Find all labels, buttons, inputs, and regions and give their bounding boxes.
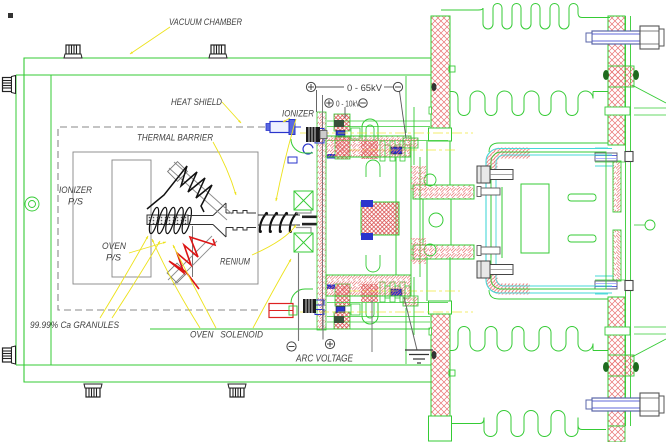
svg-text:VACUUM CHAMBER: VACUUM CHAMBER xyxy=(169,17,242,27)
10kV supply xyxy=(325,99,367,107)
cavity arch upper xyxy=(366,160,380,177)
upper support arm xyxy=(413,185,474,199)
bolt blue 5 xyxy=(327,154,335,159)
terminal comb xyxy=(380,141,410,161)
accelerator column lower half (mirrored) xyxy=(429,230,666,426)
hex bolt upper electrode xyxy=(477,166,513,183)
insulator column upper (sectioned support) xyxy=(429,16,456,141)
extraction electrode cup cyan outline xyxy=(486,149,612,294)
flange hatch lower xyxy=(411,238,426,264)
leader granules 2 xyxy=(112,241,160,318)
thermal barrier dashed box xyxy=(58,127,265,310)
exit line xyxy=(634,224,645,226)
bracket center boss xyxy=(361,202,399,235)
neck tube with baffles xyxy=(226,211,256,214)
small bolt mid-right upper xyxy=(595,152,633,162)
oven support rod xyxy=(168,236,217,285)
chamber inner wall bottom xyxy=(16,364,431,366)
svg-text:HEAT SHIELD: HEAT SHIELD xyxy=(171,97,222,107)
pipe elbow upper xyxy=(291,139,313,153)
cyan stubs lower xyxy=(595,276,613,294)
65kV supply xyxy=(306,82,406,138)
chamber bolt left-upper xyxy=(3,76,16,94)
lower strip foot patch xyxy=(608,426,625,442)
feedthrough centerline upper xyxy=(300,132,473,134)
source mounting plate xyxy=(317,112,326,330)
flange hole lower xyxy=(424,244,436,256)
feedthrough centerline lower xyxy=(300,311,473,313)
oven solenoid feedthrough (red box) xyxy=(269,304,297,318)
leader renium xyxy=(252,225,296,255)
leader oven solenoid left xyxy=(152,239,200,328)
65kV lead down xyxy=(316,90,318,112)
lower column foot xyxy=(429,416,452,441)
flange ring stack at right upper xyxy=(595,16,666,212)
blue stub xyxy=(288,157,297,163)
bolt blue 1 xyxy=(391,147,402,154)
solenoid frame lower xyxy=(296,228,311,246)
stem center box xyxy=(423,199,451,245)
electrode cup green wall xyxy=(491,152,606,289)
cyan stubs upper xyxy=(595,148,613,166)
electrode bracket top arm xyxy=(326,136,411,157)
electrode bracket right wall xyxy=(396,157,411,275)
cup shield line lower xyxy=(489,290,608,299)
solenoid frame upper xyxy=(296,196,311,213)
leader thermal barrier xyxy=(213,142,236,195)
hex bolt top-right upper xyxy=(586,26,664,49)
bolt blue 5 xyxy=(327,285,335,290)
pipe elbow lower xyxy=(291,289,313,303)
comb hatch xyxy=(361,284,378,302)
ionizer heater zigzag xyxy=(147,166,212,212)
accelerator column upper half xyxy=(429,4,666,213)
solenoid winding lower xyxy=(294,233,313,252)
ground symbol xyxy=(404,297,433,363)
svg-text:THERMAL BARRIER: THERMAL BARRIER xyxy=(137,133,213,143)
strip wall middle joints xyxy=(626,212,631,230)
small bolt mid-right lower xyxy=(595,281,633,291)
corrugated insulator profile lower outer xyxy=(452,411,606,437)
leader ionizer long xyxy=(276,119,296,201)
vacuum chamber outer shell xyxy=(24,58,431,382)
left end flange xyxy=(15,75,17,365)
left inner wall xyxy=(50,75,52,365)
plate centerline xyxy=(322,95,324,330)
corner mark xyxy=(8,13,13,18)
bolt blue 2 xyxy=(336,307,345,313)
knurled feedthrough lower xyxy=(303,299,316,313)
hex bolt lower electrode xyxy=(477,261,513,278)
svg-text:IONIZER: IONIZER xyxy=(282,109,314,119)
feedthrough flange hatch blocks lower xyxy=(334,312,350,329)
oven support strut xyxy=(192,226,194,277)
corrugated insulator profile upper outer xyxy=(441,4,610,30)
solenoid lead line xyxy=(371,300,373,352)
svg-text:IONIZER: IONIZER xyxy=(59,185,92,195)
chamber right partition lower xyxy=(405,308,407,364)
ionizer PS enclosure xyxy=(73,152,258,284)
chamber right partition upper xyxy=(405,76,407,133)
leader vacuum chamber xyxy=(130,27,170,54)
edge plate right upper xyxy=(632,85,666,103)
bolt blue 3 xyxy=(315,129,324,134)
insulator column lower (sectioned support) xyxy=(429,301,456,426)
oven barrel (Ca granules) xyxy=(147,215,188,225)
lower support arm xyxy=(413,245,474,259)
svg-text:OVEN: OVEN xyxy=(102,241,126,251)
arc voltage minus terminal xyxy=(287,253,299,351)
leader oven solenoid mid xyxy=(173,245,216,328)
viewport xyxy=(25,197,39,211)
leader granules 1 xyxy=(100,236,148,318)
flat screw upper xyxy=(477,187,500,197)
oven tube xyxy=(188,216,213,225)
cup shield line upper xyxy=(489,143,608,152)
svg-text:RENIUM: RENIUM xyxy=(220,257,250,267)
retaining ring xyxy=(303,144,313,154)
chamber bolt bottom-mid xyxy=(228,384,246,397)
leader oven ps xyxy=(129,242,166,253)
electrode cup inner cyan xyxy=(496,155,612,286)
bolt blue 3 xyxy=(315,310,324,315)
solenoid winding upper xyxy=(294,191,313,210)
comb hatch xyxy=(361,141,378,159)
flange hole upper xyxy=(424,174,436,186)
beam exit circle xyxy=(645,220,655,230)
svg-text:P/S: P/S xyxy=(106,253,121,263)
ionizer support rod xyxy=(169,162,232,220)
oven heater coil xyxy=(147,207,193,235)
feedthrough flange hatch blocks upper xyxy=(334,114,350,131)
chamber inner wall top xyxy=(16,74,431,76)
ionizer TC diamond xyxy=(168,162,188,182)
svg-text:0 - 65kV: 0 - 65kV xyxy=(347,83,383,94)
bolt blue 4 xyxy=(315,300,324,305)
oven PS enclosure xyxy=(112,160,151,277)
base plate line xyxy=(150,328,430,330)
terminal comb xyxy=(380,282,410,302)
washer stack xyxy=(327,321,430,323)
chamber bolt top-mid xyxy=(209,45,227,58)
svg-text:0 - 10kV: 0 - 10kV xyxy=(336,99,360,109)
svg-text:P/S: P/S xyxy=(68,197,83,207)
svg-text:ARC VOLTAGE: ARC VOLTAGE xyxy=(295,354,353,365)
leader ionizer short xyxy=(283,118,290,122)
insulator arch xyxy=(362,119,378,140)
oven heater zigzag (red) xyxy=(169,237,215,289)
Y flare xyxy=(213,203,226,237)
clamp bolt through plate xyxy=(334,120,344,127)
bolt blue 2 xyxy=(336,131,345,137)
flange ring stack at right lower xyxy=(595,230,666,426)
hex bolt top-right lower xyxy=(586,393,664,416)
10kV lead down xyxy=(344,107,346,118)
chamber bolt bottom-left xyxy=(84,384,102,397)
corrugated insulator profile upper inner xyxy=(450,91,593,115)
cup corner gussets xyxy=(492,153,530,172)
flange hatch upper xyxy=(411,166,426,192)
insulator arch xyxy=(362,303,378,324)
leader heat shield xyxy=(222,102,241,123)
flange collar lower xyxy=(608,355,634,376)
hatched elbow xyxy=(403,138,418,148)
cavity arch lower xyxy=(366,255,380,272)
electrode stem box xyxy=(427,141,450,301)
ionizer coil xyxy=(259,212,298,233)
flat screw lower xyxy=(477,246,500,256)
vent slot upper xyxy=(568,194,596,201)
leader oven solenoid right xyxy=(253,259,291,328)
washer stack xyxy=(327,120,430,122)
boss bolt lower xyxy=(361,233,373,240)
bolt blue 4 xyxy=(315,138,324,143)
electrode standoff rods xyxy=(491,187,502,258)
arc voltage plus terminal xyxy=(323,300,335,349)
boss bolt upper xyxy=(361,200,373,207)
oven TC diamond xyxy=(167,263,187,283)
ionizer feedthrough body xyxy=(266,120,301,135)
knurled feedthrough upper xyxy=(306,127,327,142)
o-ring seals lower xyxy=(603,362,639,372)
stem hole xyxy=(429,213,443,227)
electrode window xyxy=(521,184,549,253)
chamber bolt left-lower xyxy=(3,346,16,364)
corrugated insulator profile lower inner xyxy=(450,327,593,352)
svg-text:99.99% Ca GRANULES: 99.99% Ca GRANULES xyxy=(30,320,119,330)
electrode bracket bottom arm xyxy=(326,275,411,296)
clamp bolt through plate xyxy=(334,316,344,323)
bolt blue 1 xyxy=(391,289,402,296)
svg-text:OVEN SOLENOID: OVEN SOLENOID xyxy=(190,330,263,340)
edge plate right lower xyxy=(632,339,666,357)
extraction plates xyxy=(302,216,317,226)
vent slot lower xyxy=(568,235,596,242)
chamber bolt top-left xyxy=(64,45,82,58)
ionizer tube lines xyxy=(258,215,300,225)
flange holes plate xyxy=(414,107,420,335)
o-ring seals upper xyxy=(603,70,639,80)
flange collar upper xyxy=(608,66,634,87)
